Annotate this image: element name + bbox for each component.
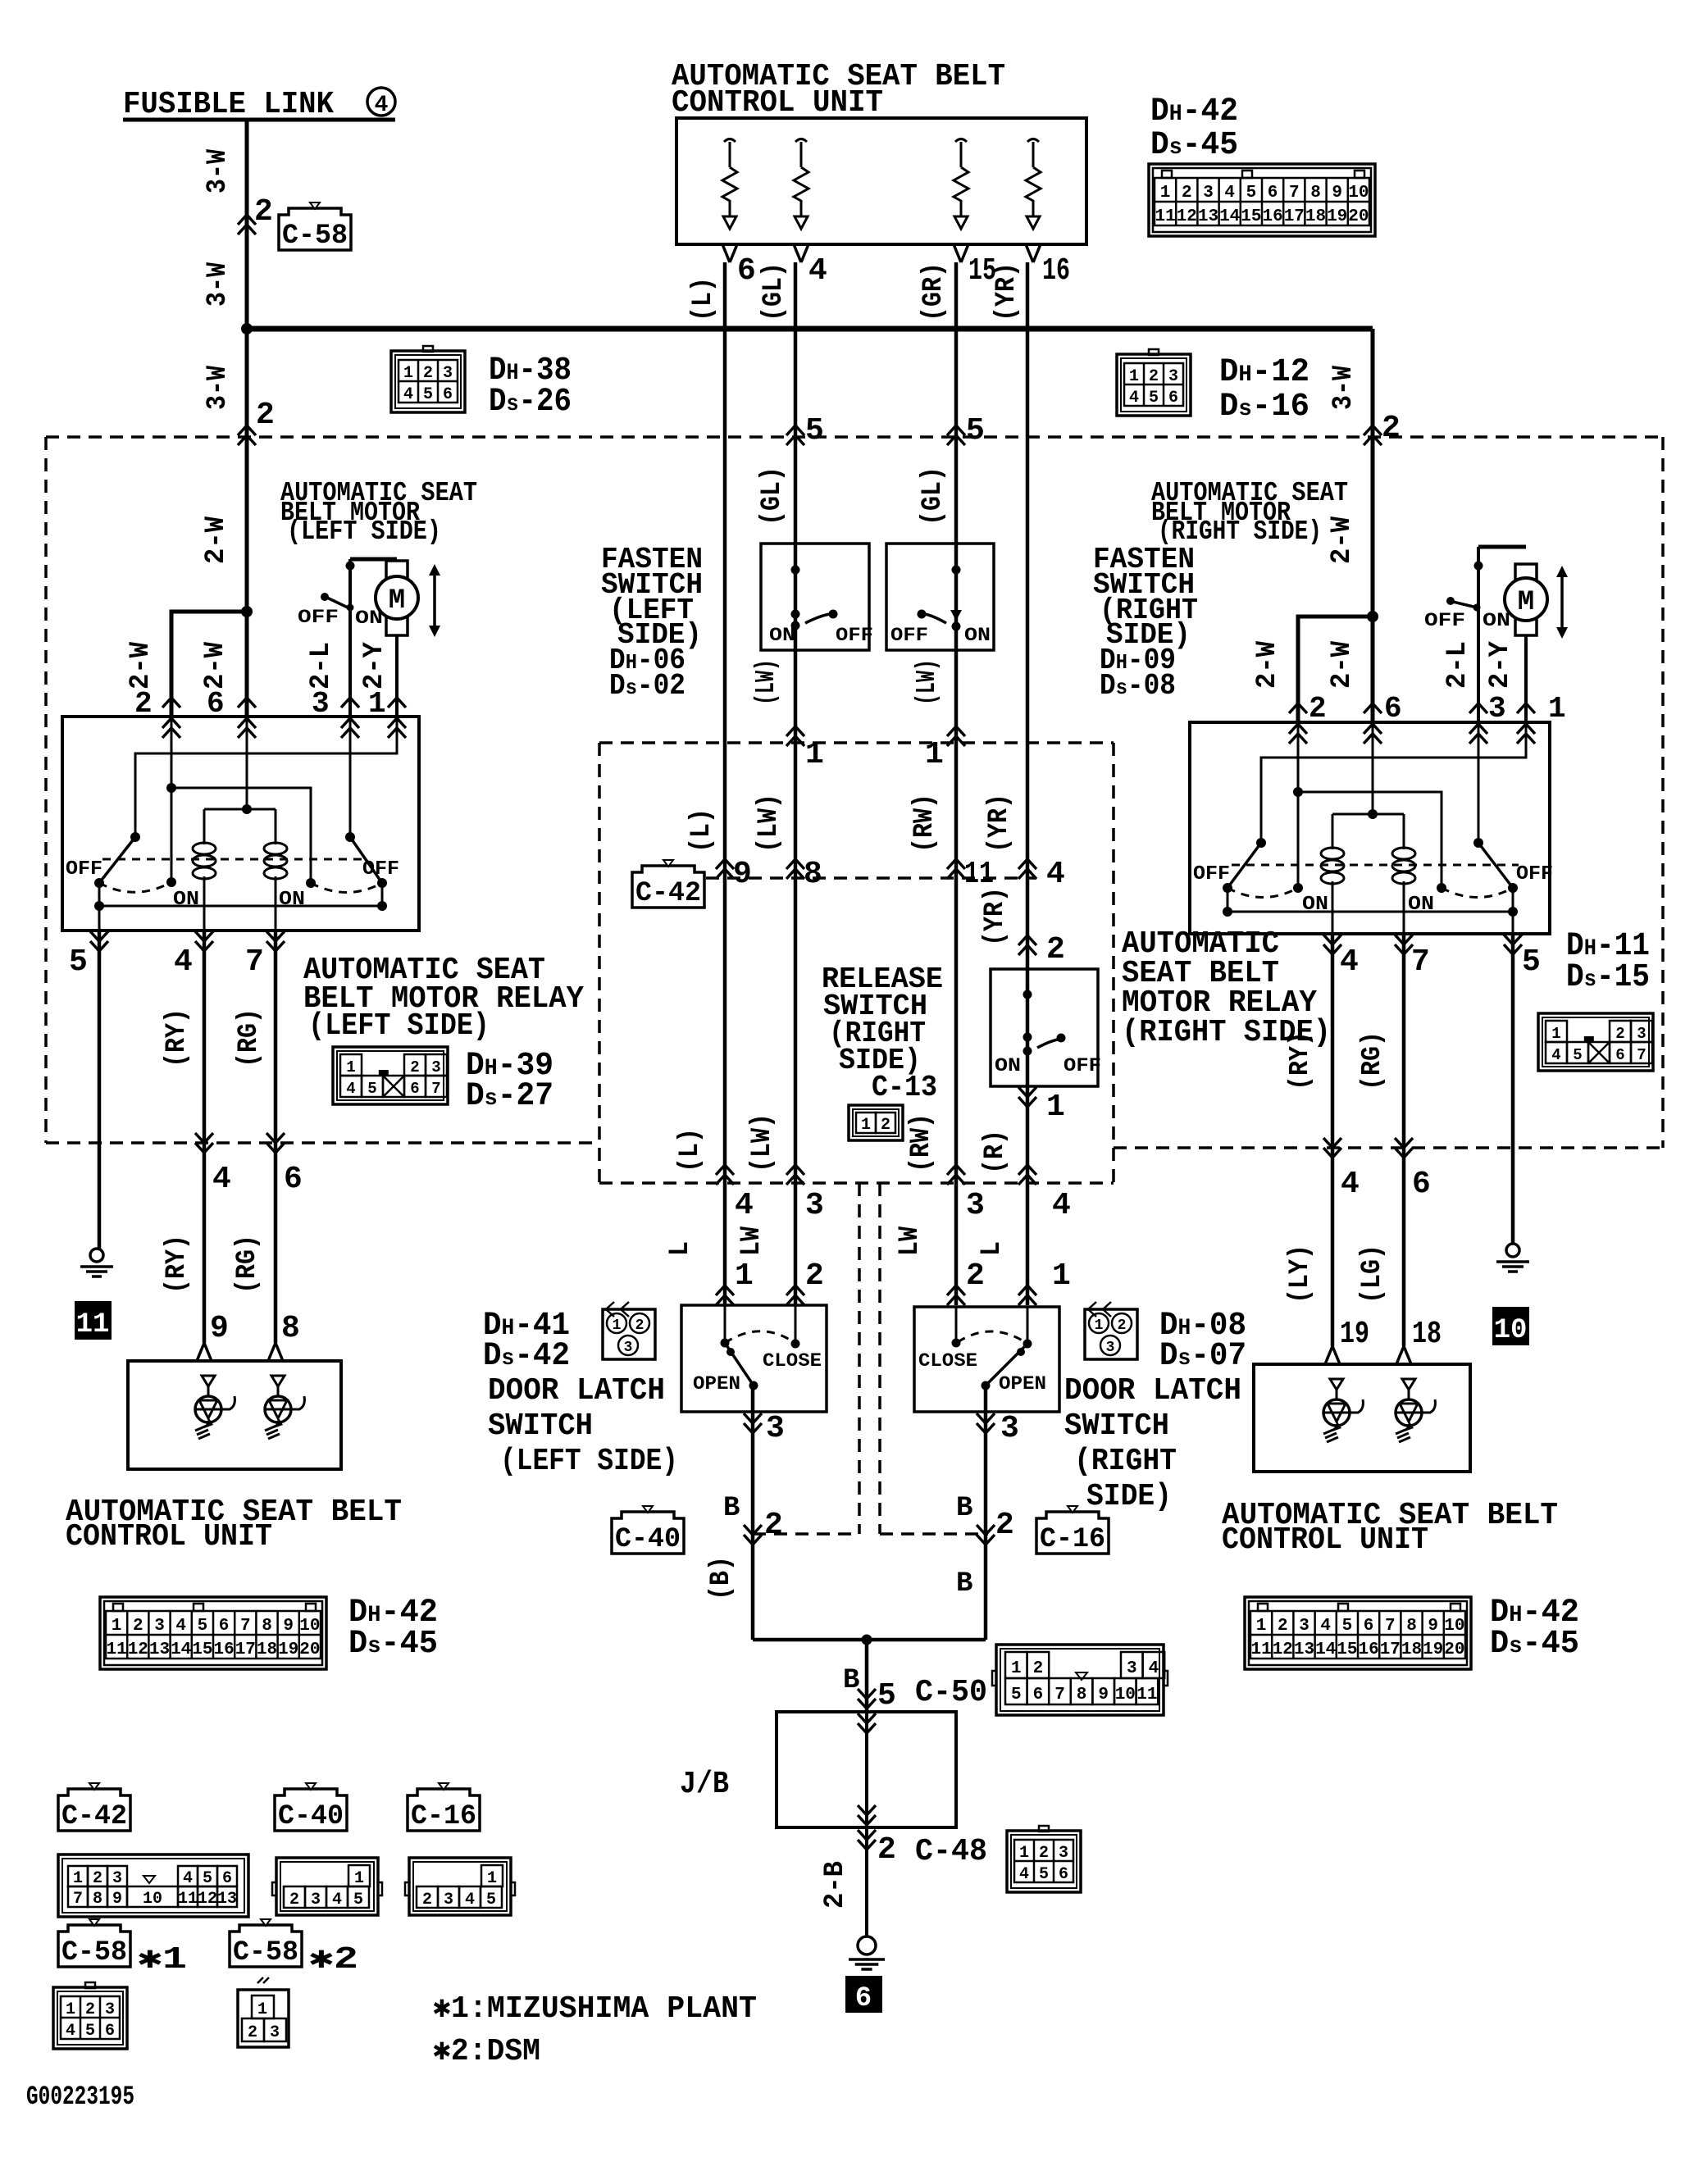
svg-text:3: 3 — [431, 1058, 440, 1076]
svg-text:10: 10 — [299, 1617, 320, 1636]
relay coil feed pin6 — [246, 717, 248, 809]
connector C-16 icon (legend) — [408, 1789, 480, 1831]
svg-text:B: B — [723, 1493, 740, 1524]
svg-text:(LW): (LW) — [747, 1113, 778, 1172]
door latch left contacts — [724, 1305, 726, 1343]
wire dashed channel right — [878, 1183, 881, 1534]
relay entry chevrons x=301 — [238, 698, 256, 708]
svg-text:5: 5 — [203, 1869, 212, 1888]
wire (RW) vertical center C — [954, 262, 959, 1305]
pin 4 chevron harness mid — [716, 1165, 734, 1185]
svg-text:C-42: C-42 — [61, 1801, 127, 1832]
svg-text:4: 4 — [1341, 1167, 1360, 1202]
svg-text:(R): (R) — [980, 1130, 1011, 1174]
svg-text:CONTROL UNIT: CONTROL UNIT — [672, 85, 883, 121]
relay wire pin2 (right relay) — [1297, 722, 1300, 888]
connector DH-41 3-pin icon — [606, 1302, 629, 1317]
relay wire pin1 to left pivot — [135, 717, 397, 837]
svg-text:SIDE): SIDE) — [1086, 1479, 1172, 1514]
svg-text:ON: ON — [173, 889, 199, 911]
svg-text:✱2:DSM: ✱2:DSM — [433, 2034, 540, 2069]
svg-text:1: 1 — [1095, 1317, 1104, 1334]
wire door latch right output — [984, 1386, 988, 1640]
svg-text:2-B: 2-B — [820, 1861, 851, 1909]
connector C-58 icon *2 — [230, 1925, 302, 1967]
relay coil feed pin6 right — [1372, 722, 1374, 814]
svg-text:8: 8 — [1077, 1686, 1087, 1704]
svg-text:ON: ON — [995, 1055, 1021, 1076]
relay wire pin3 to pivot B — [1478, 722, 1480, 843]
svg-text:1: 1 — [925, 737, 944, 772]
svg-text:C-40: C-40 — [615, 1524, 681, 1555]
svg-text:2: 2 — [635, 1317, 644, 1334]
wire dashed channel left — [858, 1183, 861, 1534]
svg-text:3: 3 — [966, 1188, 985, 1223]
pin 5 chevron (GL) right — [947, 425, 965, 445]
svg-text:OPEN: OPEN — [693, 1373, 740, 1395]
svg-text:6: 6 — [219, 1617, 230, 1636]
connector C-42 icon (mid) — [632, 866, 704, 908]
connector C-40 icon (legend) — [275, 1789, 347, 1831]
wire motor bottom lead 2-Y right — [1524, 635, 1528, 722]
svg-text:B: B — [956, 1493, 972, 1524]
pin 5 chevron (GL) left — [786, 425, 804, 445]
svg-text:2-W: 2-W — [1327, 640, 1358, 689]
svg-text:7: 7 — [1637, 1046, 1646, 1064]
svg-text:5: 5 — [353, 1891, 363, 1909]
svg-text:ON: ON — [964, 625, 991, 646]
pin 4 chevron — [1018, 859, 1036, 879]
relay entry chevrons right x=1861 — [1517, 703, 1535, 713]
wire (RG) left — [274, 931, 278, 1343]
svg-text:2: 2 — [256, 398, 275, 433]
svg-text:6: 6 — [1059, 1865, 1068, 1884]
svg-text:OFF: OFF — [1064, 1055, 1101, 1076]
connector DH-39/DS-27 7-pin — [333, 1047, 448, 1104]
svg-text:3: 3 — [443, 364, 453, 383]
ground (left) — [90, 1249, 103, 1262]
svg-text:2-W: 2-W — [125, 641, 157, 689]
svg-text:4: 4 — [1046, 857, 1065, 892]
svg-text:17: 17 — [1380, 1641, 1401, 1659]
svg-text:2: 2 — [1033, 1659, 1044, 1678]
wire dashed middle box right edge — [1112, 743, 1115, 1183]
svg-text:8: 8 — [93, 1890, 102, 1909]
circled 4 symbol — [367, 88, 395, 116]
svg-text:2: 2 — [764, 1508, 783, 1543]
svg-text:(LEFT SIDE): (LEFT SIDE) — [287, 516, 441, 547]
svg-text:13: 13 — [149, 1641, 170, 1659]
resistor in control unit at x=1260 — [1027, 139, 1039, 143]
svg-text:ON: ON — [279, 889, 305, 911]
pin 2 chevron C-16 — [977, 1525, 995, 1545]
wire 3-W main left vertical — [245, 120, 249, 717]
svg-text:8: 8 — [281, 1311, 300, 1346]
pin 6 chevron right harness — [1395, 1138, 1413, 1158]
svg-text:1: 1 — [112, 1617, 122, 1636]
relay entry chevrons right x=1803 — [1469, 703, 1487, 713]
pin 3 chevron harness mid — [947, 1165, 965, 1185]
svg-text:(RY): (RY) — [162, 1235, 193, 1294]
connector C-58 3-pin pinout — [238, 1990, 289, 2047]
box fasten switch (right side) — [886, 544, 994, 650]
svg-text:(RG): (RG) — [1357, 1031, 1387, 1090]
wire B down to J/B — [865, 1640, 869, 1712]
wire dashed C-42 line — [706, 876, 1036, 880]
pin 9 chevron — [716, 859, 734, 879]
relay left lever — [99, 837, 135, 883]
svg-text:1: 1 — [1256, 1617, 1267, 1636]
svg-text:12: 12 — [1273, 1641, 1293, 1659]
svg-text:4: 4 — [375, 93, 389, 118]
wire (RY) right — [1331, 934, 1335, 1346]
svg-text:2-W: 2-W — [200, 641, 231, 689]
svg-text:CLOSE: CLOSE — [918, 1350, 977, 1372]
svg-text:7: 7 — [245, 944, 264, 980]
fasten switch right contacts — [952, 566, 961, 575]
svg-text:7: 7 — [1289, 184, 1300, 203]
relay mechanical link dashed — [102, 858, 362, 861]
relay coil output wires — [203, 876, 206, 931]
svg-text:4: 4 — [1551, 1046, 1560, 1064]
svg-text:6: 6 — [1384, 692, 1402, 726]
connector DH-38/DS-26 6-pin — [391, 351, 465, 412]
wire (RY) left — [203, 931, 207, 1343]
relay common bottom wire right — [1227, 888, 1513, 912]
svg-text:OFF: OFF — [298, 607, 339, 628]
connector C-58 icon — [279, 208, 351, 250]
svg-text:OFF: OFF — [1424, 610, 1465, 631]
svg-text:4: 4 — [174, 944, 193, 980]
pin 1 chevron right — [947, 726, 965, 746]
relay common bottom wire — [99, 883, 382, 906]
svg-text:8: 8 — [262, 1617, 272, 1636]
svg-text:1: 1 — [73, 1869, 83, 1888]
svg-text:8: 8 — [1310, 184, 1321, 203]
svg-text:6: 6 — [1168, 389, 1178, 407]
svg-text:OFF: OFF — [890, 625, 928, 646]
svg-text:2-L: 2-L — [306, 642, 337, 689]
svg-text:3: 3 — [1203, 184, 1214, 203]
svg-text:2: 2 — [1118, 1317, 1127, 1334]
svg-text:17: 17 — [235, 1641, 256, 1659]
svg-text:M: M — [1518, 587, 1534, 618]
svg-text:1: 1 — [403, 364, 413, 383]
svg-text:(RY): (RY) — [1285, 1031, 1315, 1090]
svg-text:L: L — [977, 1241, 1008, 1256]
svg-text:10: 10 — [1494, 1315, 1528, 1346]
svg-text:14: 14 — [1315, 1641, 1336, 1659]
svg-text:5: 5 — [198, 1617, 208, 1636]
svg-text:2-Y: 2-Y — [1485, 640, 1516, 689]
node 10 reference box — [1492, 1307, 1529, 1345]
svg-text:J/B: J/B — [680, 1767, 729, 1802]
connector inline pin 2 chevron — [238, 215, 256, 234]
svg-text:(RY): (RY) — [162, 1008, 193, 1067]
svg-text:5: 5 — [966, 413, 985, 448]
svg-text:2: 2 — [1149, 367, 1159, 386]
wire dashed stub to C-16 — [880, 1532, 988, 1536]
wire B bus join — [753, 1638, 986, 1642]
svg-text:2: 2 — [423, 364, 433, 383]
pin 15 split — [954, 244, 968, 262]
svg-text:5: 5 — [805, 413, 824, 448]
svg-text:(B): (B) — [706, 1556, 737, 1600]
svg-text:1: 1 — [1052, 1258, 1071, 1294]
svg-text:11: 11 — [1155, 207, 1175, 226]
connector C-50 11-pin — [996, 1645, 1164, 1715]
svg-text:1: 1 — [354, 1869, 364, 1888]
pin 8 chevron — [786, 859, 804, 879]
svg-text:6: 6 — [855, 1983, 872, 2014]
pin 3 chevron harness mid — [786, 1165, 804, 1185]
svg-text:1: 1 — [1011, 1659, 1022, 1678]
pin 4 chevron right harness — [1323, 1138, 1341, 1158]
pin 2 chevron right — [1364, 425, 1382, 445]
svg-text:Ds-08: Ds-08 — [1100, 669, 1176, 703]
svg-text:16: 16 — [213, 1641, 234, 1659]
svg-text:1: 1 — [861, 1116, 871, 1135]
fasten switch left contacts — [791, 566, 800, 575]
wire (LW) vertical center B — [794, 262, 798, 1305]
svg-text:2-Y: 2-Y — [359, 641, 390, 689]
svg-text:15: 15 — [1241, 207, 1261, 226]
relay exit pin 4 right — [1323, 935, 1341, 954]
svg-text:CONTROL UNIT: CONTROL UNIT — [1222, 1522, 1428, 1558]
connector C-58 6-pin pinout — [53, 1987, 127, 2049]
pin 5 chevron C-50 — [858, 1689, 876, 1709]
switch lever (left motor) — [321, 593, 329, 601]
svg-text:DH-42: DH-42 — [1150, 93, 1238, 130]
wire dashed right box bottom — [1114, 1146, 1663, 1149]
relay lever A (right relay) — [1227, 843, 1261, 888]
wire door latch left output — [751, 1386, 755, 1640]
svg-text:5: 5 — [69, 944, 88, 980]
connector DH-08 3-pin icon — [1088, 1302, 1111, 1317]
svg-text:3: 3 — [1127, 1659, 1137, 1678]
svg-text:5: 5 — [423, 385, 433, 404]
svg-text:2: 2 — [410, 1058, 419, 1076]
svg-text:3: 3 — [1168, 367, 1178, 386]
box automatic seat belt motor relay (left) — [62, 717, 419, 931]
svg-text:3-W: 3-W — [203, 148, 234, 193]
svg-text:3-W: 3-W — [1328, 365, 1360, 410]
svg-text:CONTROL UNIT: CONTROL UNIT — [66, 1519, 272, 1554]
motor M (right) — [1515, 564, 1537, 583]
svg-text:11: 11 — [964, 857, 994, 892]
svg-text:4: 4 — [735, 1188, 754, 1223]
svg-text:6: 6 — [1033, 1686, 1044, 1704]
svg-text:9: 9 — [112, 1890, 122, 1909]
relay lever B — [1478, 843, 1513, 888]
svg-text:LW: LW — [895, 1226, 926, 1256]
connector C-48 6-pin — [1007, 1831, 1081, 1892]
svg-text:C-50: C-50 — [915, 1675, 987, 1710]
wire (L) vertical center A — [723, 262, 727, 1305]
svg-text:3-W: 3-W — [203, 262, 234, 307]
pin 16 split — [1026, 244, 1041, 262]
connector C-40 icon (mid) — [612, 1512, 684, 1554]
svg-text:3: 3 — [1000, 1411, 1019, 1446]
pin 4 chevron at harness — [195, 1133, 213, 1153]
svg-text:9: 9 — [210, 1311, 229, 1346]
svg-text:1: 1 — [66, 2000, 75, 2019]
svg-text:OFF: OFF — [1193, 863, 1230, 885]
svg-text:18: 18 — [257, 1641, 277, 1659]
svg-text:(L): (L) — [686, 808, 717, 853]
svg-text:9: 9 — [1098, 1686, 1109, 1704]
SCR symbol 2 — [271, 1376, 285, 1386]
svg-text:1: 1 — [257, 2000, 267, 2019]
relay exit pin 4 — [195, 931, 213, 951]
box door latch switch (right side) — [914, 1307, 1059, 1412]
svg-text:OFF: OFF — [66, 858, 102, 881]
svg-text:18: 18 — [1401, 1641, 1422, 1659]
svg-text:2: 2 — [248, 2023, 257, 2042]
pin 3 chevron right out — [977, 1413, 995, 1433]
svg-text:(RW): (RW) — [909, 794, 941, 853]
svg-text:19: 19 — [1423, 1641, 1443, 1659]
svg-text:6: 6 — [1364, 1617, 1374, 1636]
svg-text:OFF: OFF — [1516, 863, 1553, 885]
pin 2 chevron C-48 — [858, 1830, 876, 1850]
resistor in control unit at x=977 — [795, 139, 807, 143]
SCR symbol 1 — [202, 1376, 215, 1386]
svg-text:12: 12 — [198, 1890, 217, 1909]
svg-text:CLOSE: CLOSE — [763, 1350, 822, 1372]
svg-text:C-13: C-13 — [872, 1071, 937, 1104]
svg-text:3: 3 — [805, 1188, 824, 1223]
svg-text:(YR): (YR) — [991, 262, 1023, 321]
wire pin5 to ground left — [98, 931, 102, 1249]
svg-text:2: 2 — [995, 1508, 1014, 1543]
svg-text:1: 1 — [1129, 367, 1139, 386]
svg-text:DH-12: DH-12 — [1219, 354, 1309, 391]
relay dashed throw arcs (right relay) — [1227, 888, 1298, 898]
svg-text:11: 11 — [76, 1309, 110, 1340]
svg-text:11: 11 — [1136, 1686, 1157, 1704]
svg-text:4: 4 — [1129, 389, 1139, 407]
connector C-16 icon (mid) — [1036, 1512, 1109, 1554]
svg-text:15: 15 — [192, 1641, 212, 1659]
svg-text:4: 4 — [332, 1891, 342, 1909]
svg-text:1: 1 — [487, 1869, 497, 1888]
SCR symbol 4 — [1402, 1379, 1415, 1390]
node branch junction dot — [241, 606, 253, 617]
svg-text:OFF: OFF — [362, 858, 399, 881]
svg-text:5: 5 — [1342, 1617, 1353, 1636]
svg-text:12: 12 — [1177, 207, 1197, 226]
relay entry chevrons x=484 — [388, 698, 406, 708]
svg-text:3: 3 — [1299, 1617, 1309, 1636]
connector C-42 13-pin pinout — [58, 1854, 248, 1917]
wire dashed left box bottom — [46, 1141, 599, 1144]
svg-text:2: 2 — [966, 1258, 985, 1294]
svg-text:OPEN: OPEN — [999, 1373, 1046, 1395]
pin 3 chevron left out — [744, 1413, 762, 1433]
relay mechanical link dashed right — [1232, 864, 1519, 867]
relay exit pin 5 — [90, 931, 108, 951]
svg-text:(LW): (LW) — [751, 659, 781, 705]
motor M (left) — [386, 561, 408, 580]
svg-text:1: 1 — [613, 1317, 622, 1334]
svg-text:6: 6 — [105, 2022, 115, 2041]
wire relay pin5 out — [98, 906, 101, 931]
svg-text:Ds-15: Ds-15 — [1566, 959, 1650, 996]
J/B exit chevron — [858, 1805, 876, 1825]
svg-text:7: 7 — [1385, 1617, 1396, 1636]
svg-text:3: 3 — [1637, 1025, 1646, 1043]
svg-text:17: 17 — [1284, 207, 1305, 226]
wire dashed stub to C-40 — [753, 1532, 859, 1536]
svg-text:9: 9 — [1428, 1617, 1438, 1636]
svg-text:10: 10 — [1444, 1617, 1464, 1636]
svg-text:5: 5 — [1149, 389, 1159, 407]
svg-text:4: 4 — [1340, 944, 1359, 980]
door latch right contacts — [955, 1307, 958, 1343]
motor M (left) bracket wire — [350, 557, 397, 562]
relay entry chevrons right x=1674 — [1364, 703, 1382, 713]
connector DH-42/DS-45 20-pin (bottom right) — [1245, 1597, 1471, 1669]
connector DH-11/DS-15 7-pin — [1538, 1013, 1653, 1071]
svg-text:Ds-45: Ds-45 — [1490, 1626, 1579, 1663]
pin 6 chevron at harness — [266, 1133, 285, 1153]
svg-text:1: 1 — [805, 737, 824, 772]
svg-text:✱1:MIZUSHIMA PLANT: ✱1:MIZUSHIMA PLANT — [433, 1991, 757, 2027]
svg-text:11: 11 — [1250, 1641, 1271, 1659]
svg-text:C-48: C-48 — [915, 1834, 987, 1869]
svg-text:3: 3 — [1106, 1340, 1115, 1356]
connector C-40 5-pin pinout — [276, 1858, 378, 1915]
svg-text:2-W: 2-W — [1252, 640, 1283, 689]
svg-text:7: 7 — [1054, 1686, 1065, 1704]
svg-text:6: 6 — [410, 1080, 419, 1098]
svg-text:3: 3 — [444, 1891, 453, 1909]
svg-text:2: 2 — [1382, 411, 1401, 446]
svg-text:4: 4 — [403, 385, 413, 404]
svg-text:1: 1 — [1551, 1025, 1560, 1043]
svg-text:6: 6 — [222, 1869, 232, 1888]
svg-text:14: 14 — [1219, 207, 1240, 226]
relay exit pin 5 right — [1504, 935, 1522, 954]
svg-text:5: 5 — [1011, 1686, 1022, 1704]
svg-text:4: 4 — [1224, 184, 1235, 203]
svg-text:4: 4 — [1149, 1659, 1159, 1678]
svg-text:19: 19 — [278, 1641, 298, 1659]
svg-text:5: 5 — [1246, 184, 1257, 203]
svg-text:ON: ON — [769, 625, 795, 646]
pin 2 chevron C-40 — [744, 1525, 762, 1545]
box fasten switch (left side) — [761, 544, 869, 650]
node 11 reference box — [75, 1301, 112, 1340]
svg-text:2: 2 — [881, 1116, 890, 1135]
svg-text:2: 2 — [133, 1617, 143, 1636]
svg-text:LW: LW — [736, 1226, 767, 1256]
wire dashed middle box bottom — [599, 1181, 1114, 1185]
relay wire pin1 to pivot (right relay) — [1261, 722, 1526, 843]
up-down arrow (left) — [433, 574, 436, 627]
svg-text:20: 20 — [1348, 207, 1369, 226]
svg-text:Ds-16: Ds-16 — [1219, 389, 1309, 425]
svg-text:2: 2 — [877, 1832, 896, 1868]
node branch junction dot right — [1367, 611, 1378, 622]
svg-text:(LEFT SIDE): (LEFT SIDE) — [308, 1008, 490, 1044]
svg-text:(LG): (LG) — [1357, 1245, 1388, 1304]
svg-text:(LW): (LW) — [754, 794, 785, 853]
svg-text:(GL): (GL) — [918, 466, 949, 526]
svg-text:4: 4 — [346, 1080, 355, 1098]
svg-text:B: B — [843, 1665, 859, 1696]
